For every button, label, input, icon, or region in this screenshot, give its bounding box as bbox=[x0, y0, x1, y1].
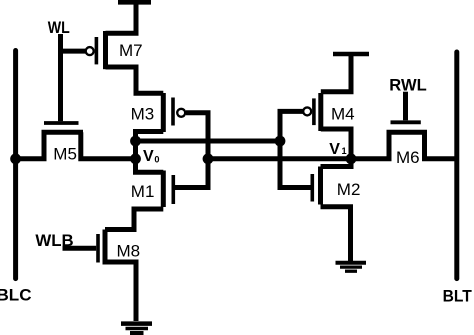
wire V1 cross-coupling line (lower) bbox=[208, 156, 389, 161]
svg-text:M8: M8 bbox=[117, 241, 141, 260]
bit line BLC bbox=[13, 51, 18, 279]
svg-text:M4: M4 bbox=[331, 104, 355, 123]
wire WLB to M8 gate bbox=[63, 246, 97, 251]
svg-text:V: V bbox=[329, 141, 340, 158]
bit line BLT bbox=[454, 52, 459, 279]
wire WL branch to M7 gate bbox=[59, 49, 86, 54]
node: V0 line to M4/M2 gate riser bbox=[275, 136, 286, 147]
wire WL to M5 gate bbox=[58, 34, 63, 121]
ground (below M2) bbox=[336, 263, 367, 272]
svg-text:M1: M1 bbox=[131, 182, 155, 201]
node: BLC-M5 junction bbox=[10, 153, 21, 164]
node: V1 line to M3/M1 gate riser bbox=[203, 153, 214, 164]
transistor M5 (NMOS pass, horizontal) bbox=[16, 123, 136, 159]
wire M7 drain to M3 source bbox=[106, 67, 164, 93]
wire M1 source to M8 drain bbox=[105, 209, 163, 230]
svg-text:0: 0 bbox=[154, 155, 159, 165]
wire M4 drain to node V1 bbox=[321, 129, 351, 159]
svg-text:V: V bbox=[143, 148, 154, 165]
power rail VDD (M4 source) bbox=[321, 54, 369, 92]
node V0 (link between drains) bbox=[130, 136, 141, 165]
svg-text:BLT: BLT bbox=[443, 287, 473, 306]
wire M3 drain to node V0 bbox=[136, 132, 164, 142]
svg-text:M2: M2 bbox=[337, 180, 361, 199]
wire M2 source to ground bbox=[321, 207, 351, 261]
transistor M2 (NMOS) bbox=[312, 167, 320, 205]
wire V0 cross-coupling line to right bbox=[136, 139, 281, 144]
svg-text:1: 1 bbox=[342, 146, 347, 156]
transistor M1 (NMOS) bbox=[163, 171, 173, 208]
power rail VDD (top, M7 source) bbox=[106, 0, 152, 33]
svg-text:WL: WL bbox=[48, 18, 70, 37]
ground (below M8) bbox=[121, 324, 152, 333]
wire riser V0 to gates of M4 and M2 bbox=[280, 111, 311, 187]
wire V0 to M1 drain bbox=[136, 159, 164, 173]
wire V1 to M2 drain bbox=[321, 159, 352, 167]
svg-text:M5: M5 bbox=[53, 145, 77, 164]
svg-text:WLB: WLB bbox=[35, 231, 73, 250]
svg-text:BLC: BLC bbox=[0, 286, 32, 305]
wire RWL to M6 gate bbox=[403, 92, 408, 121]
wire M3/M1 gate riser to V1 line bbox=[175, 113, 208, 188]
svg-text:M3: M3 bbox=[131, 105, 155, 124]
node V1 bbox=[346, 153, 357, 164]
transistor M4 (PMOS) bbox=[303, 93, 321, 131]
transistor M8 (NMOS) bbox=[98, 230, 105, 265]
transistor M7 (PMOS) bbox=[86, 31, 106, 69]
transistor M6 (NMOS pass, horizontal) bbox=[387, 122, 457, 159]
svg-text:M7: M7 bbox=[119, 41, 143, 60]
svg-text:M6: M6 bbox=[396, 148, 420, 167]
wire M8 source to ground bbox=[105, 262, 136, 321]
svg-text:RWL: RWL bbox=[389, 76, 426, 95]
transistor M3 (PMOS) bbox=[163, 93, 185, 132]
